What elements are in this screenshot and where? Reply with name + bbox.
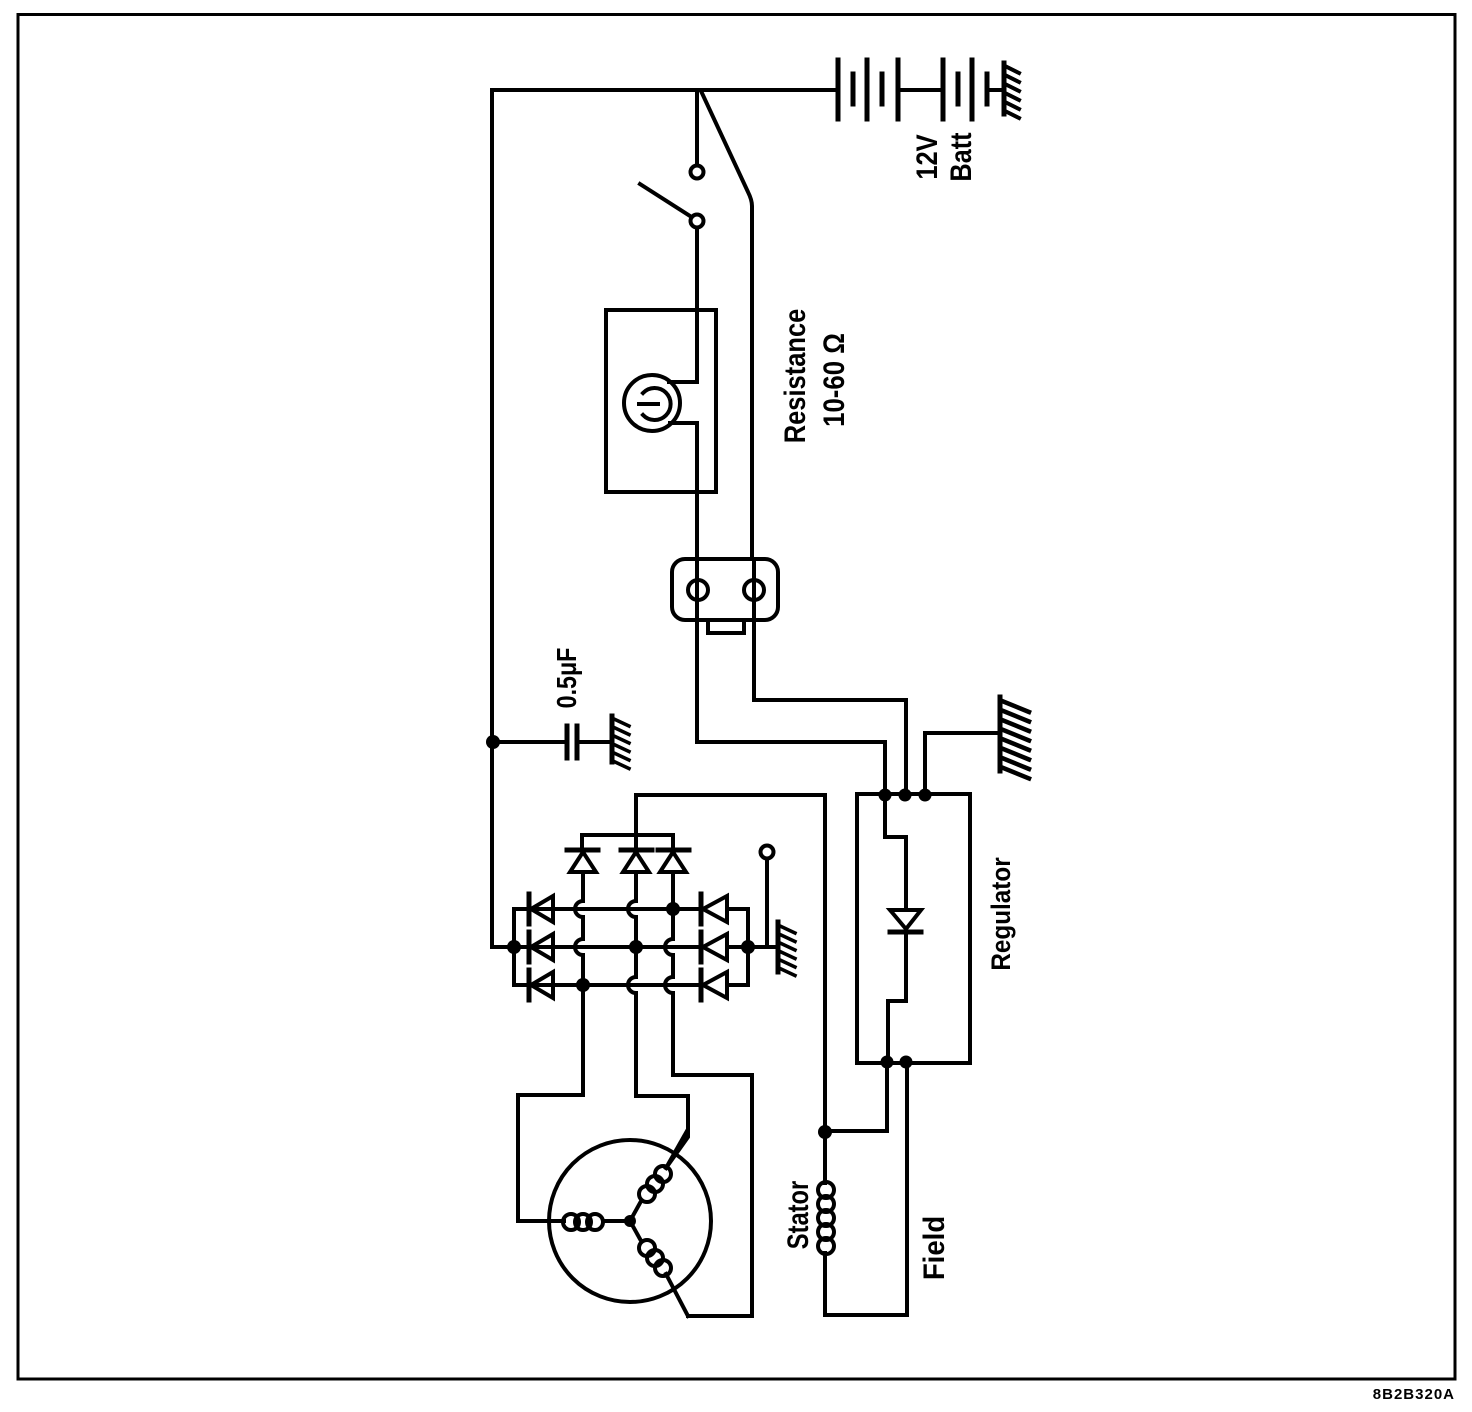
stator winding phase B (upper right) (630, 1131, 687, 1221)
svg-text:Regulator: Regulator (987, 857, 1016, 970)
wire diode trio bus (582, 795, 825, 850)
lamp box (606, 310, 716, 492)
svg-text:10-60 Ω: 10-60 Ω (817, 333, 850, 427)
wire phase row 1 (514, 907, 748, 911)
svg-text:12V: 12V (910, 134, 943, 180)
wire left vertical B+ (492, 90, 514, 947)
diode D6 (right row3) (701, 970, 727, 1000)
diode D1 (left row1) (529, 894, 553, 924)
wire phase column 2 with hops (628, 872, 688, 1168)
stator winding phase C (lower right) (630, 1221, 688, 1316)
diode D3 (left row3) (529, 970, 553, 1000)
diode D2 (left row2) (529, 932, 553, 962)
wire top B+ rail (492, 88, 838, 92)
wire phase row 3 (514, 983, 748, 987)
label Stator (781, 1180, 814, 1249)
stator winding phase A (left) (518, 1214, 625, 1230)
label 8B2B320A (1373, 1386, 1455, 1403)
wire phase column 3 with hops (665, 872, 752, 1316)
regulator box (857, 794, 970, 1063)
label Field (918, 1216, 951, 1280)
terminal stator tap (761, 846, 774, 948)
lamp L1 (624, 310, 697, 559)
wire connector right pin down (754, 559, 906, 795)
svg-text:Resistance: Resistance (778, 309, 811, 444)
diode D8 (trio middle) (621, 850, 652, 901)
svg-text:Field: Field (918, 1216, 951, 1280)
wire connector left pin down (697, 559, 885, 795)
connector J1 (672, 559, 778, 633)
ground capacitor (612, 716, 629, 769)
wire regulator ground branch (925, 733, 999, 795)
field winding F1 (818, 1063, 907, 1315)
wire right rectifier bus (746, 909, 750, 985)
junction dot field (818, 1125, 832, 1139)
wire B+ bus right side down (823, 795, 827, 1131)
label 0.5uF (552, 648, 582, 709)
junction dot stator neutral (624, 1215, 636, 1227)
diode D7 (trio left) (567, 850, 598, 901)
label Resistance 10-60 ohm (778, 309, 850, 444)
diode D4 (right row1) (701, 894, 727, 924)
ground battery (1004, 63, 1019, 118)
label 12V Batt (910, 133, 977, 182)
wire regulator to field junction (825, 1062, 887, 1131)
wire phase row 2 (514, 945, 777, 949)
wire phase column 1 with hops (518, 872, 583, 1221)
battery 12V Batt (838, 60, 1003, 119)
label Regulator (987, 857, 1016, 970)
zener diode inside regulator (885, 795, 921, 1062)
ground rectifier (778, 922, 795, 976)
svg-text:8B2B320A: 8B2B320A (1373, 1386, 1455, 1403)
switch S1 (640, 90, 704, 310)
capacitor C1 0.5uF (486, 726, 611, 758)
ground regulator (1000, 697, 1029, 779)
diode D9 (trio right) (658, 850, 689, 901)
svg-text:Batt: Batt (944, 133, 978, 182)
svg-text:0.5μF: 0.5μF (552, 648, 582, 709)
stator housing circle (549, 1140, 711, 1302)
junction dots regulator (879, 789, 932, 1069)
svg-text:Stator: Stator (781, 1180, 814, 1249)
diode D5 (right row2) (701, 932, 727, 962)
wire diagonal bypass (701, 91, 752, 559)
junction dots rectifier (507, 902, 755, 992)
wire left rectifier bus (512, 909, 516, 985)
